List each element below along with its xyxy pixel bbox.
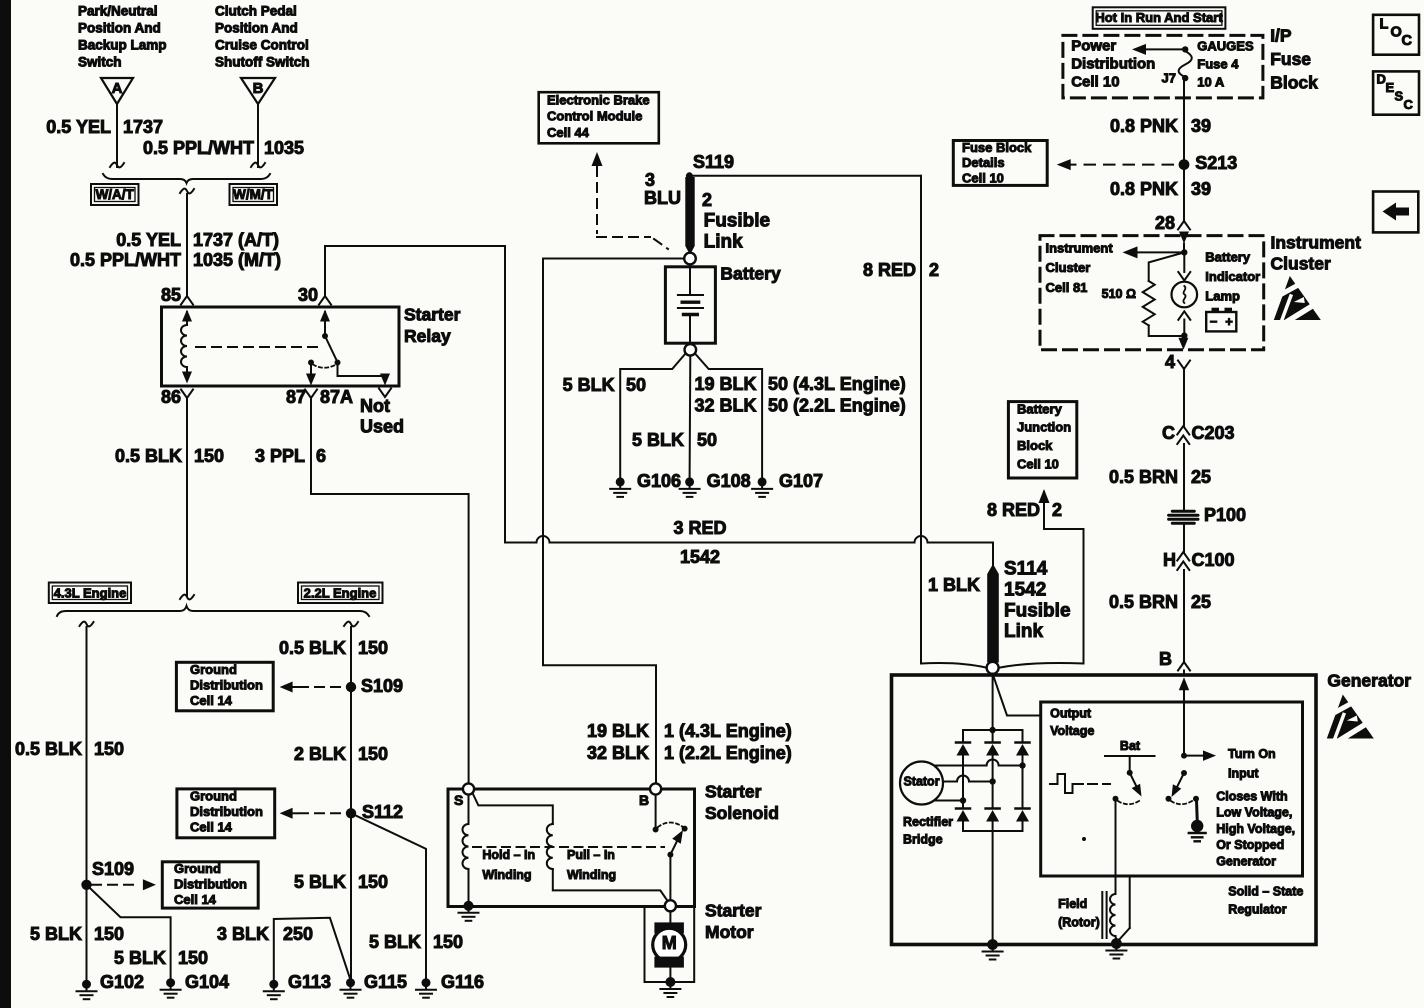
svg-text:Electronic Brake: Electronic Brake (547, 92, 650, 107)
wire battery to G106 (620, 354, 685, 478)
wire to relay pin 85 (180, 189, 194, 194)
wire 87 to solenoid S 3 PPL 6 (311, 398, 469, 784)
svg-text:Distribution: Distribution (1071, 55, 1155, 72)
svg-text:Regulator: Regulator (1228, 903, 1286, 917)
svg-text:0.5 BLK: 0.5 BLK (15, 739, 82, 759)
rectifier diode D1 (962, 730, 964, 742)
svg-text:150: 150 (358, 744, 388, 764)
svg-text:5 BLK: 5 BLK (294, 872, 346, 892)
output voltage waveform (1050, 774, 1083, 793)
svg-text:P100: P100 (1204, 505, 1246, 525)
generator box (892, 675, 1317, 945)
svg-text:Hot In Run And Start: Hot In Run And Start (1095, 10, 1223, 25)
svg-text:S119: S119 (693, 152, 734, 172)
svg-text:Starter: Starter (705, 782, 762, 802)
ground G115 (346, 978, 355, 987)
svg-text:Winding: Winding (567, 868, 616, 882)
svg-text:19 BLK: 19 BLK (587, 721, 649, 741)
solenoid pin B (650, 783, 661, 794)
svg-text:G106: G106 (637, 471, 681, 491)
rectifier diode D2 (992, 730, 994, 742)
solenoid pin S (463, 783, 474, 794)
svg-text:32 BLK: 32 BLK (694, 395, 756, 415)
svg-text:150: 150 (94, 924, 124, 944)
svg-text:I/P: I/P (1270, 26, 1292, 46)
svg-text:0.5 YEL: 0.5 YEL (116, 230, 181, 250)
ESD symbol instrument cluster (1272, 276, 1322, 323)
battery icon (1212, 308, 1220, 313)
solenoid switch (655, 795, 657, 827)
field return wire (1129, 876, 1131, 928)
svg-text:Position And: Position And (215, 21, 298, 36)
stator phase 2 wire (943, 781, 957, 783)
wire P100 to C100 (1183, 524, 1185, 552)
svg-text:S109: S109 (92, 859, 134, 879)
DESC icon box (1373, 71, 1419, 114)
svg-text:Fusible: Fusible (704, 211, 771, 232)
rectifier bridge top bus (963, 729, 1023, 731)
dashed arrow to ground distribution (S109 4.3L) (92, 884, 140, 886)
svg-text:25: 25 (1191, 467, 1211, 487)
svg-text:(Rotor): (Rotor) (1058, 916, 1100, 930)
svg-text:Ground: Ground (174, 861, 221, 876)
svg-text:Fuse: Fuse (1270, 49, 1311, 69)
svg-text:2 BLK: 2 BLK (294, 744, 346, 764)
regulator Bat contact bar (1105, 755, 1155, 757)
svg-text:Fuse Block: Fuse Block (962, 140, 1032, 155)
resistor 510 ohm (1149, 252, 1185, 281)
svg-text:Power: Power (1071, 37, 1116, 54)
svg-text:2: 2 (702, 190, 712, 210)
svg-text:1737 (A/T): 1737 (A/T) (193, 230, 279, 250)
svg-text:Link: Link (1004, 621, 1043, 642)
ground G116 (422, 978, 431, 987)
svg-text:5 BLK: 5 BLK (563, 375, 615, 395)
svg-text:Hold – In: Hold – In (482, 848, 535, 862)
svg-text:50 (2.2L Engine): 50 (2.2L Engine) (768, 395, 906, 415)
starter relay box (162, 307, 400, 386)
svg-text:Solid – State: Solid – State (1228, 885, 1303, 899)
battery box (665, 267, 715, 343)
svg-text:4.3L Engine: 4.3L Engine (54, 585, 127, 600)
wire fuse to S213 0.8 PNK 39 (1183, 80, 1185, 160)
ground G104 (166, 978, 175, 987)
svg-text:32 BLK: 32 BLK (587, 743, 649, 763)
svg-text:3 BLK: 3 BLK (217, 924, 269, 944)
svg-text:2.2L Engine: 2.2L Engine (304, 585, 377, 600)
svg-text:2: 2 (929, 260, 939, 280)
svg-text:Pull – In: Pull – In (567, 848, 615, 862)
svg-text:28: 28 (1155, 213, 1175, 233)
field core bars (1101, 892, 1103, 938)
svg-text:Bridge: Bridge (903, 833, 943, 847)
svg-text:GAUGES: GAUGES (1197, 38, 1254, 53)
svg-text:Bat: Bat (1120, 739, 1141, 753)
svg-text:Rectifier: Rectifier (903, 815, 953, 829)
svg-text:19 BLK: 19 BLK (694, 374, 756, 394)
svg-text:0.5 BRN: 0.5 BRN (1109, 592, 1178, 612)
wire B 0.5 PPL/WHT 1035 (257, 104, 259, 167)
battery symbol (689, 267, 691, 295)
svg-text:Indicator: Indicator (1205, 269, 1260, 284)
svg-text:Cell 44: Cell 44 (547, 125, 590, 140)
hold-in winding (468, 795, 470, 824)
svg-text:−: − (1210, 314, 1218, 329)
svg-text:B: B (639, 792, 649, 808)
ground distribution cell 14 box (S109 4.3L) (162, 862, 258, 908)
svg-text:Instrument: Instrument (1271, 233, 1362, 253)
rectifier ground wire (992, 831, 994, 940)
svg-text:Output: Output (1050, 707, 1092, 721)
node below fusible link (921, 663, 987, 668)
svg-text:39: 39 (1191, 179, 1211, 199)
svg-text:Battery: Battery (1017, 401, 1063, 416)
svg-text:W/M/T: W/M/T (233, 187, 273, 202)
fuse block arrow (1146, 48, 1183, 50)
svg-text:1 BLK: 1 BLK (928, 575, 980, 595)
dashed arrow to EBCM (592, 152, 603, 166)
svg-text:W/A/T: W/A/T (96, 187, 135, 202)
connector C100 (1177, 552, 1189, 561)
connector A (101, 78, 133, 104)
pull-in winding return (553, 869, 669, 903)
svg-text:1035 (M/T): 1035 (M/T) (193, 250, 281, 270)
wire 8 RED 2 from S119 (693, 175, 921, 177)
solenoid dashed link (473, 846, 664, 848)
svg-text:1035: 1035 (264, 138, 304, 158)
svg-text:150: 150 (178, 948, 208, 968)
svg-text:30: 30 (298, 285, 318, 305)
svg-text:D: D (1377, 71, 1386, 86)
fusible link A (3 BLU 2) (685, 177, 694, 255)
svg-text:510 Ω: 510 Ω (1102, 287, 1136, 301)
svg-text:3: 3 (645, 170, 655, 190)
wire battery to G107 (695, 354, 762, 478)
svg-text:Cell 10: Cell 10 (1017, 456, 1059, 471)
svg-text:0.5 YEL: 0.5 YEL (46, 117, 111, 137)
cluster junction node (1183, 244, 1185, 253)
wire pin 30 feed from 3 RED (325, 246, 505, 543)
wire pin4 to C203 0.5 BRN 25 (1183, 369, 1185, 426)
ground distribution cell 14 box (S109 2.2L) (176, 662, 273, 711)
node S119 (686, 172, 693, 179)
svg-text:150: 150 (194, 446, 224, 466)
W/A/T tag (91, 184, 139, 205)
rectifier lower diodes (962, 801, 964, 809)
svg-text:3 RED: 3 RED (673, 518, 726, 538)
wire 4.3L branch down (80, 622, 94, 627)
svg-text:150: 150 (358, 872, 388, 892)
pin 86 (310, 363, 312, 378)
grommet P100 (1169, 511, 1198, 523)
svg-text:0.8 PNK: 0.8 PNK (1110, 116, 1178, 136)
svg-text:S109: S109 (361, 676, 403, 696)
svg-text:Link: Link (704, 231, 743, 252)
svg-text:C: C (1404, 97, 1414, 112)
ESD symbol generator (1325, 695, 1375, 742)
svg-text:150: 150 (433, 932, 463, 952)
svg-text:0.5 BLK: 0.5 BLK (279, 638, 346, 658)
svg-text:O: O (1391, 24, 1402, 40)
svg-text:1 (4.3L Engine): 1 (4.3L Engine) (664, 721, 792, 741)
battery junction block cell 10 box (1008, 402, 1076, 478)
electronic brake control module box (539, 92, 659, 143)
svg-text:S: S (454, 792, 463, 808)
svg-text:Ground: Ground (190, 662, 237, 677)
pull-in winding (547, 824, 553, 869)
relay switch (320, 310, 330, 322)
svg-text:5 BLK: 5 BLK (632, 430, 684, 450)
svg-text:Fuse 4: Fuse 4 (1197, 56, 1239, 71)
connector B (241, 78, 275, 104)
svg-text:B: B (1159, 649, 1172, 669)
svg-text:8 RED: 8 RED (863, 260, 916, 280)
svg-text:Starter: Starter (404, 305, 461, 325)
dashed arrow to ground distribution (280, 682, 293, 693)
dashed arrow to fuse block details (1070, 164, 1173, 166)
svg-text:Switch: Switch (78, 55, 122, 70)
svg-text:G108: G108 (707, 471, 751, 491)
svg-text:5 BLK: 5 BLK (369, 932, 421, 952)
svg-text:Battery: Battery (1205, 249, 1251, 264)
pin 28 entry arrow (1179, 232, 1189, 244)
svg-text:0.8 PNK: 0.8 PNK (1110, 179, 1178, 199)
svg-text:Cell 10: Cell 10 (962, 170, 1004, 185)
svg-text:Distribution: Distribution (190, 677, 263, 692)
regulator switch 1 (1129, 756, 1131, 770)
svg-text:G115: G115 (364, 972, 407, 992)
W/M/T tag (230, 184, 278, 205)
svg-text:1 (2.2L Engine): 1 (2.2L Engine) (664, 743, 792, 763)
I/P fuse block dashed box (1063, 35, 1263, 98)
fusible link B S114 1542 (987, 564, 999, 663)
dashed arrow to ground distribution (S112) (280, 808, 293, 819)
svg-text:Cruise Control: Cruise Control (215, 38, 309, 53)
svg-text:0.5 BRN: 0.5 BRN (1109, 467, 1178, 487)
generator B entry arrow (1179, 677, 1189, 690)
svg-text:Fusible: Fusible (1004, 600, 1071, 621)
wire S112 to G116 5 BLK 150 (351, 813, 426, 982)
starter motor ground (665, 977, 675, 987)
svg-text:S213: S213 (1195, 153, 1237, 173)
svg-text:Relay: Relay (404, 326, 451, 346)
svg-text:150: 150 (358, 638, 388, 658)
svg-text:C100: C100 (1192, 550, 1235, 570)
svg-text:Lamp: Lamp (1205, 288, 1240, 303)
4.3L Engine tag (49, 583, 131, 604)
svg-text:Battery: Battery (720, 264, 781, 284)
svg-text:+: + (1225, 314, 1233, 329)
svg-text:50 (4.3L Engine): 50 (4.3L Engine) (768, 374, 906, 394)
svg-text:Block: Block (1017, 438, 1053, 453)
svg-text:Not: Not (360, 396, 390, 416)
hold-in winding ground (464, 901, 474, 911)
svg-text:50: 50 (626, 375, 646, 395)
svg-text:Closes With: Closes With (1216, 790, 1287, 804)
svg-text:Generator: Generator (1327, 671, 1411, 691)
svg-text:BLU: BLU (644, 188, 681, 208)
wire node to rectifier (992, 674, 994, 730)
svg-text:C: C (1402, 33, 1413, 49)
svg-text:Position And: Position And (78, 21, 161, 36)
svg-text:1542: 1542 (680, 547, 720, 567)
wire battery node to left (543, 258, 684, 260)
svg-text:10 A: 10 A (1197, 74, 1225, 89)
svg-text:Low Voltage,: Low Voltage, (1216, 806, 1292, 820)
rectifier bottom bus (963, 830, 1023, 832)
svg-text:4: 4 (1165, 352, 1175, 372)
svg-text:86: 86 (161, 387, 181, 407)
svg-text:H: H (1163, 550, 1176, 570)
svg-text:Ground: Ground (190, 788, 237, 803)
svg-text:L: L (1380, 16, 1389, 32)
relay pin 87A path (Not Used) (338, 363, 386, 378)
LOC icon box (1373, 15, 1419, 55)
pin 4 exit arrow (1178, 338, 1188, 350)
node S109 (4.3L) (81, 880, 91, 890)
svg-text:39: 39 (1191, 116, 1211, 136)
svg-text:G116: G116 (441, 972, 484, 992)
rectifier ground (987, 939, 998, 950)
svg-text:Control Module: Control Module (547, 109, 642, 124)
wire S213 to instrument cluster 0.8 PNK 39 (1183, 170, 1185, 221)
battery bottom node (685, 344, 697, 356)
svg-text:Generator: Generator (1216, 854, 1276, 868)
svg-text:25: 25 (1191, 592, 1211, 612)
relay dashed link (196, 346, 318, 348)
svg-text:50: 50 (697, 430, 717, 450)
svg-text:3 PPL: 3 PPL (255, 446, 305, 466)
svg-text:Cell 81: Cell 81 (1046, 280, 1088, 295)
svg-text:1542: 1542 (1004, 579, 1046, 600)
wire S109 to G104 (87, 885, 171, 983)
svg-text:5 BLK: 5 BLK (114, 948, 166, 968)
field ground (1111, 938, 1122, 949)
svg-text:Solenoid: Solenoid (705, 803, 779, 823)
svg-text:S112: S112 (362, 802, 403, 822)
svg-text:Distribution: Distribution (174, 876, 247, 891)
svg-text:8 RED: 8 RED (987, 500, 1040, 520)
wire 86 to engine brace 0.5 BLK 150 (186, 398, 188, 596)
svg-text:Used: Used (360, 416, 404, 436)
svg-text:S114: S114 (1004, 559, 1048, 580)
ground G102 (82, 980, 91, 989)
svg-text:Stator: Stator (903, 775, 939, 789)
svg-text:Input: Input (1228, 767, 1259, 781)
svg-text:Cell 14: Cell 14 (190, 819, 233, 834)
svg-text:E: E (1386, 80, 1395, 95)
field feed wire (1115, 799, 1117, 894)
wire A 0.5 YEL 1737 (116, 104, 118, 167)
svg-text:G104: G104 (185, 972, 229, 992)
wire G113 3 BLK 250 (274, 918, 351, 984)
svg-text:G113: G113 (288, 972, 331, 992)
field (rotor) coil (1110, 894, 1116, 936)
svg-text:87A: 87A (320, 387, 353, 407)
2.2L Engine tag (298, 583, 383, 604)
svg-text:5 BLK: 5 BLK (30, 924, 82, 944)
svg-text:B: B (253, 80, 264, 97)
svg-text:85: 85 (161, 285, 181, 305)
svg-text:Starter: Starter (705, 901, 762, 921)
solid-state regulator box (1041, 702, 1303, 876)
svg-text:Motor: Motor (705, 922, 754, 942)
svg-text:Cell 10: Cell 10 (1071, 73, 1119, 90)
stator phase 1 wire (935, 765, 986, 767)
svg-text:A: A (112, 80, 123, 97)
svg-text:Cluster: Cluster (1271, 254, 1331, 274)
wire battery to G108 (689, 356, 692, 477)
svg-text:Turn On: Turn On (1228, 747, 1276, 761)
svg-text:1737: 1737 (123, 117, 163, 137)
svg-text:S: S (1395, 88, 1404, 103)
svg-text:87: 87 (286, 387, 306, 407)
svg-text:250: 250 (283, 924, 313, 944)
svg-text:0.5 PPL/WHT: 0.5 PPL/WHT (143, 138, 254, 158)
ground G113 (269, 980, 278, 989)
svg-text:C: C (1162, 423, 1175, 443)
svg-text:Or Stopped: Or Stopped (1216, 838, 1284, 852)
wire node to regulator sense (993, 674, 1039, 716)
back arrow icon box (1373, 192, 1418, 233)
fuse 4 symbol (1182, 46, 1188, 52)
fuse block details cell 10 box (953, 141, 1047, 186)
svg-text:Backup Lamp: Backup Lamp (78, 38, 167, 53)
svg-text:Junction: Junction (1017, 420, 1071, 435)
svg-text:150: 150 (94, 739, 124, 759)
wire 8 RED 2 to battery junction block (1044, 492, 1084, 664)
wire battery to solenoid B (543, 259, 656, 784)
connector C203 (1177, 426, 1189, 435)
starter solenoid box (448, 789, 695, 907)
stator (900, 762, 943, 805)
svg-text:Cell 14: Cell 14 (174, 892, 217, 907)
svg-text:Clutch Pedal: Clutch Pedal (215, 4, 297, 19)
solenoid output node (665, 900, 676, 911)
wire 2.2L branch down (344, 622, 358, 627)
svg-text:Details: Details (962, 155, 1005, 170)
Hot In Run And Start tag (1093, 7, 1226, 29)
svg-text:Shutoff Switch: Shutoff Switch (215, 55, 310, 70)
regulator switch 2 (turn on input) (1181, 753, 1187, 759)
battery top node (684, 253, 696, 265)
instrument cluster dashed box (1040, 236, 1264, 350)
svg-text:Cluster: Cluster (1046, 260, 1091, 275)
node S109 (2.2L) (346, 682, 356, 692)
svg-text:Instrument: Instrument (1046, 240, 1114, 255)
engine split brace (57, 606, 369, 616)
svg-text:6: 6 (316, 446, 326, 466)
svg-text:0.5 BLK: 0.5 BLK (115, 446, 182, 466)
svg-text:Voltage: Voltage (1050, 724, 1094, 738)
rectifier diode D3 (1022, 730, 1024, 742)
wire into engine brace (180, 595, 194, 600)
stray dot (1082, 837, 1086, 841)
svg-text:Park/Neutral: Park/Neutral (78, 4, 158, 19)
svg-text:2: 2 (1052, 500, 1062, 520)
wire 3 RED 1542 (505, 542, 537, 544)
svg-text:High Voltage,: High Voltage, (1216, 822, 1295, 836)
regulator internal ground (1195, 800, 1199, 820)
svg-text:Winding: Winding (482, 868, 531, 882)
merge brace (103, 174, 270, 183)
relay coil (182, 310, 192, 322)
svg-text:Distribution: Distribution (190, 804, 263, 819)
svg-text:M: M (662, 933, 677, 953)
battery indicator lamp (1183, 252, 1185, 272)
wire solenoid to motor (669, 911, 671, 922)
ground G106 (616, 477, 625, 486)
